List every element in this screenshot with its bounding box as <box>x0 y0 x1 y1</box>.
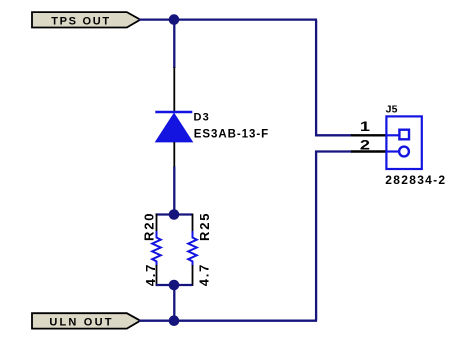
label J5 <box>386 103 398 115</box>
svg-text:D3: D3 <box>194 111 210 123</box>
pin number 2 <box>360 138 370 154</box>
diode D3 lead top (cathode) <box>173 67 175 113</box>
svg-text:R25: R25 <box>197 212 212 241</box>
wire vertical resistor bottom to ULN wire <box>173 285 175 321</box>
label 282834-2 <box>385 173 446 187</box>
connector J5 pin 2 lead <box>351 150 386 152</box>
label R25 (rotated) <box>197 212 212 241</box>
svg-text:R20: R20 <box>142 212 157 241</box>
diode D3 symbol <box>155 112 192 142</box>
svg-text:4.7: 4.7 <box>143 263 158 286</box>
wire vertical from top junction to diode lead <box>173 20 175 68</box>
port flag TPS_OUT <box>32 12 140 27</box>
wire right vertical top (to pin 1) <box>316 20 352 136</box>
connector J5 pin 1 lead <box>351 134 386 136</box>
label 4.7 for R20 (rotated) <box>143 263 158 286</box>
svg-text:1: 1 <box>360 119 370 135</box>
svg-text:4.7: 4.7 <box>197 263 212 286</box>
junction dot bottom <box>169 315 180 326</box>
wire resistor top bar <box>156 213 193 215</box>
resistor R25 lead top <box>192 214 194 232</box>
svg-text:ES3AB-13-F: ES3AB-13-F <box>194 129 269 141</box>
wire top horizontal TPS_OUT to right <box>139 18 317 20</box>
resistor R25 lead bottom <box>192 265 194 286</box>
wire vertical diode to resistor junction <box>173 167 175 215</box>
wire resistor bottom bar <box>156 284 193 286</box>
label R20 (rotated) <box>142 212 157 241</box>
label D3 <box>194 111 210 123</box>
connector J5 body <box>386 116 421 169</box>
junction dot resistor top <box>169 209 180 220</box>
label ES3AB-13-F <box>194 129 269 141</box>
junction dot resistor bottom <box>169 280 180 291</box>
port flag ULN_OUT <box>32 313 140 328</box>
svg-text:282834-2: 282834-2 <box>385 173 446 187</box>
diode D3 lead bottom (anode) <box>173 142 175 168</box>
label 4.7 for R25 (rotated) <box>197 263 212 286</box>
svg-text:2: 2 <box>360 138 370 154</box>
resistor R25 zigzag symbol <box>188 231 197 266</box>
svg-text:TPS OUT: TPS OUT <box>51 15 111 27</box>
resistor R20 lead bottom <box>156 265 158 286</box>
svg-text:ULN OUT: ULN OUT <box>49 316 113 328</box>
wire right vertical bottom (to pin 2) <box>316 152 352 321</box>
resistor R20 zigzag symbol <box>152 231 161 266</box>
resistor R20 lead top <box>156 214 158 232</box>
junction dot top <box>169 14 180 25</box>
svg-text:J5: J5 <box>386 103 398 115</box>
wire bottom horizontal ULN_OUT to right <box>139 320 317 322</box>
pin number 1 <box>360 119 370 135</box>
